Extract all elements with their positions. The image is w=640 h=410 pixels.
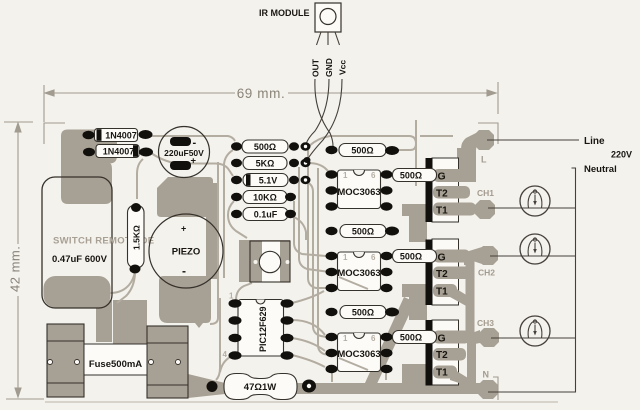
via node C hole (304, 178, 307, 181)
svg-text:1N4007: 1N4007 (103, 146, 135, 156)
pad C1 plus (170, 161, 191, 170)
diode D1 1N4007 body (95, 129, 138, 142)
svg-text:500Ω: 500Ω (254, 142, 276, 152)
wire trace piezo column down left (210, 162, 218, 324)
pad MOC U2 pin4 (381, 202, 393, 210)
lamp B3 filament arrowhead (533, 331, 537, 336)
copper bar right of piezo (206, 183, 218, 279)
svg-text:47Ω1W: 47Ω1W (244, 382, 276, 393)
CH3 arm (469, 330, 480, 345)
wire trace inside MOC3 (339, 358, 368, 370)
svg-text:500Ω: 500Ω (351, 145, 373, 155)
T2 tab triac1 (433, 186, 470, 199)
pad PIC pin3 (229, 334, 242, 342)
wire trace PIC pin to 47R pad (220, 357, 230, 372)
svg-text:T2: T2 (436, 269, 448, 280)
svg-text:Vcc: Vcc (338, 60, 348, 75)
copper block right of triac1 G stub (457, 148, 476, 182)
pad MOC U3 pin2 (326, 268, 338, 276)
resistor R9 500R body block2 (340, 225, 386, 238)
wire trace MOC3 right to bus (385, 372, 387, 380)
N pad octagon (478, 380, 498, 399)
MOC3063 U2 notch (354, 170, 365, 176)
pad C3 right (285, 210, 296, 218)
copper pad area above piezo (157, 177, 213, 217)
resistor R6 500R body block1 (339, 144, 386, 157)
svg-text:T2: T2 (436, 189, 448, 200)
CH3 pad octagon (479, 328, 499, 347)
wire Line to terminal L (487, 139, 579, 141)
capacitor C1 220uF50V circle (159, 127, 210, 178)
wire IR OUT to board (315, 79, 333, 146)
resistor R13 500R gate block3 (393, 331, 437, 344)
svg-text:5.1V: 5.1V (259, 175, 278, 185)
T2 tab triac2 (433, 267, 470, 280)
copper elbow left of triac bar 3 (402, 364, 427, 388)
capacitor C3 0.1uF body (243, 208, 288, 221)
wire trace via row1 to MOC area bus (309, 136, 416, 186)
wire trace PIC pad to trimmer (236, 283, 252, 300)
G tab triac3 (433, 331, 470, 344)
svg-text:T1: T1 (436, 206, 448, 217)
dimension line 42mm vertical (17, 125, 19, 396)
extension tick 42mm bottom (6, 398, 44, 400)
pad PIC pin2 (229, 316, 242, 324)
corner bracket N pad (493, 377, 498, 400)
svg-text:G: G (438, 171, 446, 183)
wire trace diode D2 through cap to resistor column (151, 153, 233, 176)
svg-text:-: - (193, 137, 197, 149)
svg-text:Fuse500mA: Fuse500mA (89, 359, 142, 370)
pad PIC pin1 (229, 299, 242, 307)
svg-text:PIC12F629: PIC12F629 (258, 306, 268, 352)
pad MOC U2 pin3 (326, 202, 338, 210)
wire trace R4 left pad to trimmer area (228, 201, 247, 238)
vertical copper bar CH2 to CH3 (466, 260, 475, 335)
pad Z1 right (289, 176, 299, 184)
pad R6 left (326, 146, 338, 154)
pad R6 right (385, 146, 399, 155)
svg-text:T1: T1 (436, 368, 448, 379)
pad R4 right (285, 193, 296, 201)
copper pad area below piezo (159, 276, 211, 328)
svg-text:6: 6 (371, 334, 376, 343)
wire IR GND to board (306, 79, 329, 144)
wire trace 0.47uF to 1.5K bottom pad (110, 271, 135, 293)
pad Z1 left (231, 176, 242, 184)
pad R9 right (385, 227, 399, 236)
pad D1 right (139, 130, 153, 139)
svg-text:1N4007: 1N4007 (105, 130, 137, 140)
pad C1 minus (170, 137, 191, 146)
svg-text:G: G (438, 333, 446, 345)
pad MOC U4 pin1 (326, 333, 338, 341)
MOC3063 U3 body (338, 252, 381, 291)
svg-text:1.5KΩ: 1.5KΩ (132, 225, 142, 250)
pad D2 right (139, 148, 153, 157)
svg-text:+: + (191, 156, 197, 167)
svg-text:6: 6 (371, 171, 376, 180)
pad R9 left (326, 227, 338, 235)
wire trace PIC pad1 to MOC2 (292, 291, 324, 303)
fuse F1 body (84, 344, 147, 375)
lamp B2 circle (520, 234, 550, 264)
diode D1 cathode band (97, 129, 102, 141)
wire trace diode D1 through cap to resistor column (150, 136, 235, 141)
via node A hole (304, 145, 307, 148)
svg-text:5KΩ: 5KΩ (256, 158, 275, 168)
pad R5 right hole (307, 384, 311, 388)
wire Neutral vertical (488, 168, 576, 392)
fuse right clip copper (147, 326, 188, 398)
IR module legs (317, 32, 340, 45)
svg-text:500Ω: 500Ω (352, 307, 374, 317)
pad IR wire 3 (304, 157, 311, 163)
triac Q3 bar (426, 320, 433, 386)
wire trace vertical x308 down (308, 150, 326, 288)
extension line right of 69mm (497, 82, 499, 114)
triac Q2 bar (426, 240, 433, 306)
svg-text:Neutral: Neutral (584, 164, 617, 175)
wire IR Vcc to board (307, 79, 342, 160)
svg-text:500Ω: 500Ω (400, 251, 422, 261)
via node B (301, 159, 311, 167)
svg-text:500Ω: 500Ω (400, 170, 422, 180)
MOC3063 U4 notch (354, 333, 365, 339)
fuse right clip inner lines (147, 343, 188, 385)
wire trace inside MOC2 (339, 277, 368, 289)
diode D2 cathode band (133, 145, 138, 157)
fuse left clip copper (47, 324, 84, 397)
triac Q2 terminal block outline (432, 239, 459, 305)
MOC3063 U2 body (338, 170, 381, 209)
svg-text:500Ω: 500Ω (400, 332, 422, 342)
MOC3063 U3 notch (354, 252, 365, 258)
pad MOC U4 pin6 (381, 333, 393, 341)
svg-text:MOC3063: MOC3063 (337, 349, 380, 360)
resistor R4 10K body (243, 191, 287, 204)
lamp B1 filament loop (533, 190, 536, 193)
wire trace bus to L bar (420, 135, 453, 137)
pad PIC pin4 (229, 351, 242, 359)
triac Q3 terminal block outline (432, 320, 459, 385)
resistor R1 1.5K body (128, 205, 145, 268)
extension line left of 69mm (43, 85, 45, 122)
copper link 0.47uF area to fuse (96, 300, 112, 342)
pad MOC U4 pin4 (381, 365, 393, 373)
svg-text:T2: T2 (436, 350, 448, 361)
zener Z1 band (246, 174, 251, 186)
fuse left clip outline (47, 324, 84, 397)
lamp B1 filament (528, 191, 542, 208)
resistor R2 500R body (242, 140, 288, 153)
pad MOC U3 pin1 (326, 252, 338, 260)
pad MOC U2 pin5 (381, 186, 393, 194)
svg-text:G: G (438, 252, 446, 264)
lamp B3 filament (528, 321, 542, 338)
copper bridge bar1-bar2 (409, 216, 427, 242)
trimmer mount hole right (286, 260, 290, 264)
svg-text:MOC3063: MOC3063 (337, 268, 380, 279)
corner bracket top-left (44, 123, 65, 144)
pad MOC U4 pin3 (326, 365, 338, 373)
wire trace R4 right pad down to MOC2 (294, 201, 326, 256)
triac Q1 bar (426, 158, 433, 222)
wire trace D2 pad to 1.5K resistor (137, 159, 143, 199)
wire trace 0.1uF right to lower area (294, 217, 306, 240)
lamp B3 circle (520, 316, 550, 346)
via node B hole (304, 161, 307, 164)
CH2 pad octagon (478, 246, 498, 265)
svg-text:1: 1 (343, 253, 348, 262)
trimmer mount hole left (254, 260, 258, 264)
svg-text:IR MODULE: IR MODULE (259, 8, 310, 18)
svg-text:69 mm.: 69 mm. (237, 86, 286, 101)
via node A (301, 142, 311, 150)
copper pour bottom of 0.47uF box (44, 276, 111, 308)
T1 tab triac3 (433, 366, 457, 379)
IC U1 notch (256, 300, 265, 305)
T2 tab triac3 (433, 348, 466, 361)
fuse left clip inner lines (47, 341, 84, 383)
copper pour around trimmer (239, 240, 290, 282)
triac Q1 terminal block outline (432, 158, 459, 222)
wire trace via row3 down mid column (306, 182, 326, 337)
resistor R7 500R gate block1 (393, 169, 437, 182)
pad R5 right (302, 380, 316, 393)
dimension line 69mm horizontal (45, 92, 495, 94)
pad R2 left (231, 142, 242, 150)
svg-text:1: 1 (229, 292, 234, 301)
svg-text:4: 4 (223, 350, 228, 359)
svg-text:42 mm.: 42 mm. (8, 246, 23, 292)
CH2 arm (464, 247, 482, 265)
wire CH3 to lamp to neutral (491, 337, 576, 339)
via node C (301, 176, 311, 184)
fuse clip hole 1 (48, 360, 53, 365)
resistor R5 47R1W body (224, 374, 297, 400)
svg-text:PIEZO: PIEZO (172, 247, 201, 258)
resistor R12 500R body block3 (340, 306, 386, 319)
pad MOC U2 pin1 (326, 170, 338, 178)
svg-text:Line: Line (584, 136, 605, 147)
trimmer white center band (262, 241, 280, 282)
wire trace MOC3 to bus (331, 372, 333, 382)
pad MOC U2 pin2 (326, 186, 338, 194)
L pad arm and bar (461, 132, 478, 176)
pad R3 right (289, 159, 299, 167)
wire trace PIC left column down (216, 298, 220, 380)
wire trace PIC pad2 to MOC3 (292, 320, 325, 335)
svg-text:220V: 220V (611, 149, 632, 159)
pad MOC U3 pin5 (381, 268, 393, 276)
copper elbow left of triac bar 1 (402, 204, 427, 240)
T1 tab triac1 to CH1 pad (433, 203, 476, 216)
dimension 42mm bottom arrow (15, 388, 21, 397)
pad PIC pin6 (281, 334, 294, 342)
piezo buzzer circle (149, 214, 223, 288)
copper elbow left of triac bar 2 (402, 284, 427, 320)
L pad octagon (474, 130, 494, 150)
pad D1 left (83, 131, 95, 140)
wire trace fold line bottom (45, 401, 558, 403)
pad PIC pin5 (281, 351, 294, 359)
svg-text:6: 6 (371, 253, 376, 262)
wire trace 500R1 right pad up (397, 120, 416, 150)
lamp B2 filament (528, 239, 542, 256)
IR module lens circle (320, 9, 336, 25)
svg-text:GND: GND (324, 58, 334, 77)
G tab triac1 (433, 169, 470, 182)
diode D2 1N4007 body (96, 145, 139, 158)
pad R12 left (326, 308, 338, 316)
pad R3 left (231, 159, 242, 167)
pad C3 left (231, 210, 242, 218)
lamp B2 filament arrowhead (533, 249, 537, 254)
svg-text:500Ω: 500Ω (352, 226, 374, 236)
pad MOC U4 pin5 (381, 349, 393, 357)
vertical copper bar CH3 to N bus (467, 336, 476, 386)
lamp B3 filament loop (533, 320, 536, 323)
lamp B1 circle (520, 186, 550, 216)
svg-text:OUT: OUT (311, 58, 321, 77)
pad PIC pin7 (281, 316, 294, 324)
pad R12 right (385, 308, 399, 317)
pad R1 top (131, 203, 141, 212)
svg-text:L: L (481, 155, 487, 165)
wire trace 1.5K bottom pad to fuse column (117, 274, 135, 303)
svg-text:1: 1 (343, 334, 348, 343)
wire trace resistor column left down (224, 150, 233, 170)
fuse clip hole 2 (75, 360, 80, 365)
dimension 42mm top arrow (15, 123, 21, 132)
pad R5 left (207, 381, 218, 392)
T1 triac2 elbow to vertical bar (450, 285, 468, 307)
svg-text:CH3: CH3 (477, 318, 494, 328)
IR module body (315, 3, 341, 32)
dimension 69mm left arrow (45, 90, 54, 96)
wire trace PIC pad4 to MOC3 (292, 355, 325, 367)
resistor R3 5K body (243, 157, 287, 170)
pad MOC U3 pin6 (381, 252, 393, 260)
capacitor C2 0.47uF 600V box (42, 177, 112, 308)
zener diode Z1 5.1V body (243, 174, 288, 187)
lamp B2 filament loop (533, 238, 536, 241)
fuse clip hole 3 (149, 360, 154, 365)
wire trace via row2 to MOC1 pin1 (308, 163, 331, 174)
wire trace PIC pad3 to MOC3 (292, 338, 325, 351)
G tab triac2 (433, 250, 470, 263)
pad R2 right (289, 142, 299, 150)
wire trace via B down to MOC2 pin2 (299, 167, 326, 272)
wire CH2 to lamp to neutral (490, 255, 576, 257)
pad MOC U4 pin2 (326, 349, 338, 357)
T1 tab triac2 (433, 284, 457, 297)
trimmer rotor circle (259, 251, 280, 272)
wire trace piezo column down right (223, 168, 225, 278)
pad MOC U2 pin6 (381, 170, 393, 178)
svg-text:1: 1 (343, 171, 348, 180)
T1 triac3 elbow to bus (450, 367, 468, 386)
pad MOC U3 pin3 (326, 284, 338, 292)
CH1 pad octagon (475, 200, 495, 219)
svg-text:CH2: CH2 (478, 268, 495, 278)
pad D2 left (83, 148, 95, 157)
wire trace vertical x318 down (318, 168, 326, 355)
trimmer outline (250, 241, 290, 282)
svg-text:CH1: CH1 (477, 188, 494, 198)
extension tick 42mm top (4, 121, 33, 123)
svg-text:MOC3063: MOC3063 (337, 187, 380, 198)
svg-text:0.1uF: 0.1uF (254, 209, 278, 219)
corner bracket top-right (478, 123, 498, 144)
svg-text:N: N (483, 370, 490, 380)
svg-text:T1: T1 (436, 287, 448, 298)
pad MOC U3 pin4 (381, 284, 393, 292)
svg-text:-: - (182, 264, 186, 278)
fuse right clip outline (147, 326, 188, 398)
pad PIC pin8 (281, 299, 294, 307)
IC U1 PIC12F629 body (238, 300, 284, 357)
bottom copper bus to N pad (188, 374, 489, 398)
pad R1 bottom (130, 265, 141, 274)
svg-text:+: + (181, 224, 186, 234)
MOC3063 U4 body (338, 333, 381, 372)
copper between fuse clips top (113, 300, 147, 344)
svg-text:0.47uF 600V: 0.47uF 600V (52, 254, 108, 265)
pad R4 left (231, 193, 242, 201)
dimension 69mm right arrow (487, 90, 496, 96)
lamp B1 filament arrowhead (533, 201, 537, 206)
fuse clip hole 4 (176, 360, 181, 365)
resistor R10 500R gate block2 (393, 250, 437, 263)
copper diagonal block2 to bottom bus (365, 297, 415, 388)
svg-text:220uF50V: 220uF50V (164, 148, 204, 158)
svg-text:10KΩ: 10KΩ (253, 192, 277, 202)
wire CH1 to lamp to neutral (488, 207, 576, 209)
copper pour top-left (under diodes) (61, 130, 117, 205)
